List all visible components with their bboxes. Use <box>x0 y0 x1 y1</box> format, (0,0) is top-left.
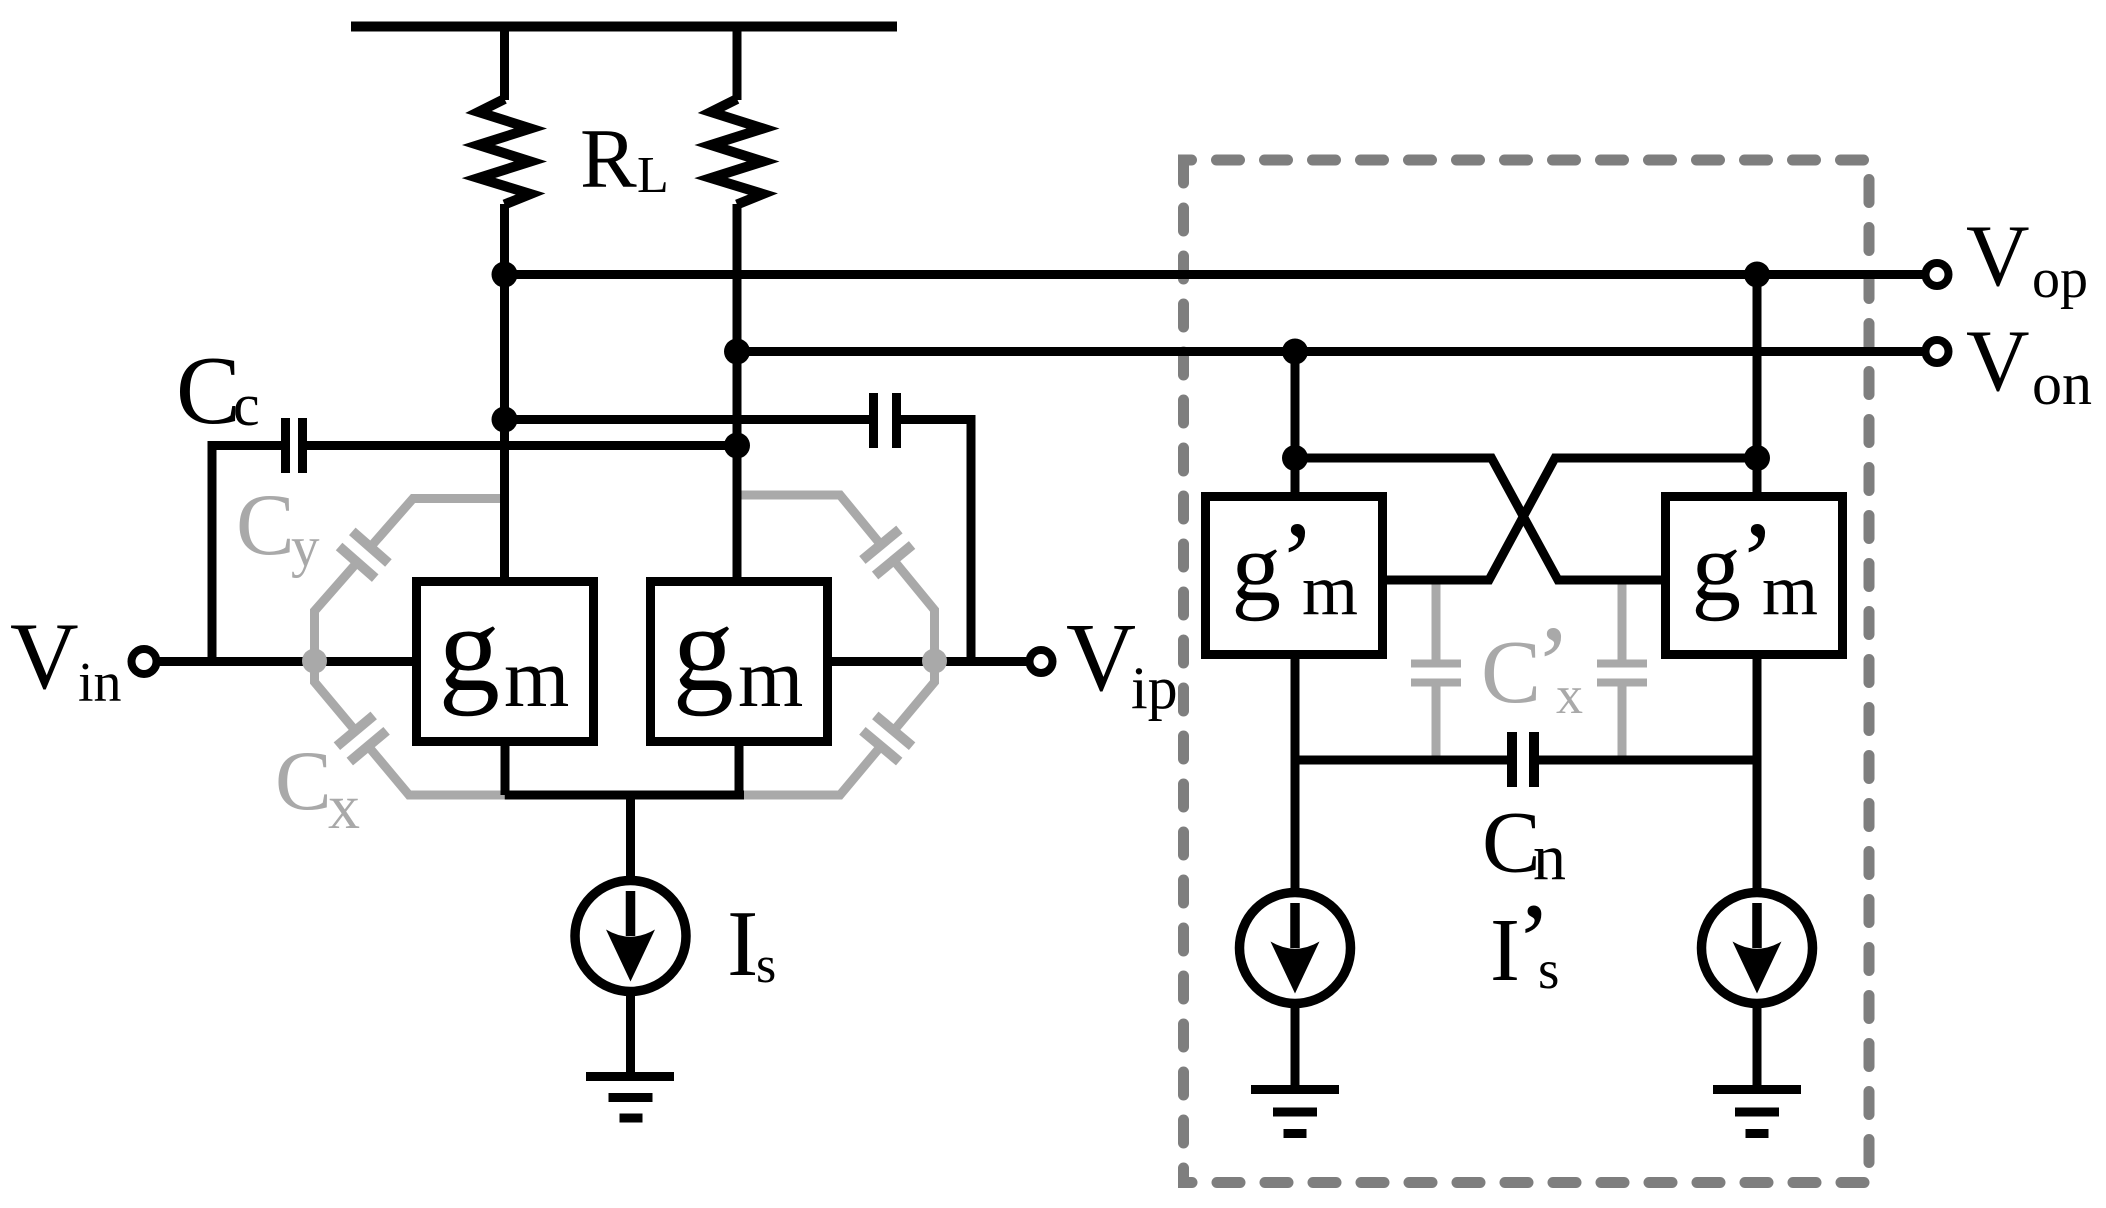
svg-text:g: g <box>1232 513 1282 622</box>
svg-text:g: g <box>1692 513 1742 622</box>
svg-text:C: C <box>1481 623 1541 722</box>
svg-text:m: m <box>1762 550 1818 630</box>
svg-text:y: y <box>291 516 320 579</box>
svg-text:g: g <box>673 580 735 717</box>
svg-text:L: L <box>637 147 669 204</box>
svg-text:R: R <box>580 112 637 206</box>
svg-text:V: V <box>1966 313 2030 410</box>
svg-text:C: C <box>1482 795 1541 892</box>
svg-text:x: x <box>328 771 360 842</box>
svg-text:I: I <box>727 892 758 996</box>
svg-text:V: V <box>1066 604 1136 711</box>
svg-text:g: g <box>439 580 501 717</box>
svg-text:V: V <box>1966 208 2030 305</box>
svg-text:ip: ip <box>1131 655 1178 721</box>
svg-text:m: m <box>738 632 803 725</box>
svg-text:m: m <box>504 632 569 725</box>
svg-text:m: m <box>1302 550 1358 630</box>
svg-text:op: op <box>2032 248 2088 310</box>
svg-text:s: s <box>756 937 776 994</box>
svg-text:c: c <box>233 372 260 438</box>
svg-text:in: in <box>78 652 122 714</box>
svg-text:x: x <box>1556 665 1583 725</box>
svg-text:C: C <box>236 477 295 574</box>
svg-text:on: on <box>2032 351 2092 417</box>
svg-text:s: s <box>1538 939 1559 1000</box>
svg-text:C: C <box>275 734 332 828</box>
svg-text:C: C <box>176 337 241 444</box>
svg-text:V: V <box>10 603 79 709</box>
